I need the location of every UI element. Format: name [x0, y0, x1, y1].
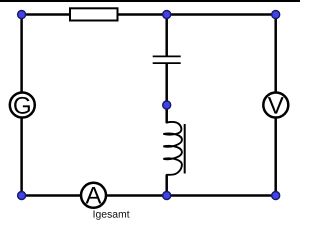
- node E bottom-left: [18, 192, 26, 200]
- wire middle upper (node B to capacitor): [165, 15, 168, 56]
- capacitor C top plate: [153, 55, 181, 57]
- wire top-left (node A to resistor): [22, 13, 70, 16]
- wire top-right (resistor to node C via node B): [118, 13, 276, 16]
- wire right lower (V to node G2): [274, 118, 277, 196]
- wire bottom-left (node E to A meter): [22, 194, 81, 197]
- wire right upper (node C to V): [274, 15, 277, 93]
- node C top-right: [272, 11, 280, 19]
- node G2 bottom-right: [272, 192, 280, 200]
- inductor L coil: [163, 122, 182, 175]
- resistor R: [70, 8, 118, 20]
- generator meter G: [10, 93, 35, 118]
- node B top-middle: [163, 11, 171, 19]
- wire bottom-right (A meter to node G2 via node F): [107, 194, 276, 197]
- node D middle: [163, 101, 171, 109]
- ammeter A: [81, 183, 106, 208]
- capacitor C bottom plate: [153, 62, 181, 64]
- voltmeter V: [263, 93, 288, 118]
- wire node D to coil: [165, 105, 168, 123]
- wire left lower (G to node E): [20, 118, 23, 196]
- top border bar: [0, 0, 300, 2]
- node F bottom-middle: [163, 192, 171, 200]
- node A top-left: [18, 11, 26, 19]
- wire left upper (node A to G): [20, 15, 23, 93]
- inductor core bar: [184, 124, 186, 174]
- wire coil to node F: [165, 175, 168, 196]
- wire capacitor to node D: [165, 64, 168, 105]
- label Igesamt: [94, 210, 130, 219]
